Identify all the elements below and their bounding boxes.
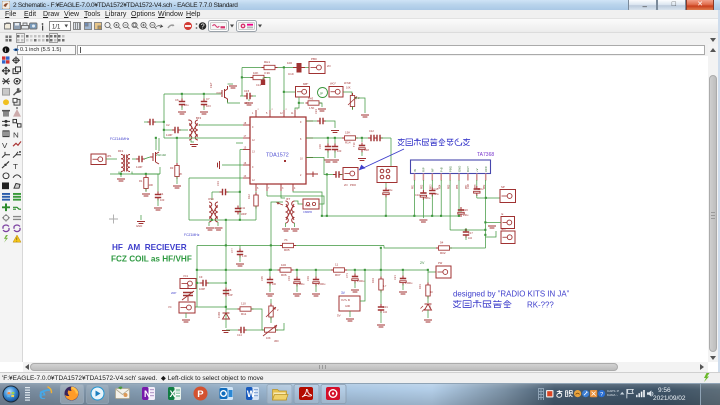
svg-text:C12: C12 <box>369 129 374 133</box>
wire JP1 to RF1 <box>106 158 117 160</box>
svg-text:7: 7 <box>268 187 270 190</box>
svg-text:1,000u: 1,000u <box>405 282 413 285</box>
svg-text:9: 9 <box>252 166 254 169</box>
wire VC2 row <box>195 306 226 308</box>
capacitor C11 100P <box>235 206 241 215</box>
flag <box>627 389 633 398</box>
svg-text:i: i <box>5 48 6 54</box>
connector E1 <box>501 217 515 229</box>
capacitor C20 240u <box>460 207 462 216</box>
svg-text:NF: NF <box>431 168 435 172</box>
svg-text:12: 12 <box>252 139 255 142</box>
T3 tuning arrow <box>277 203 284 206</box>
wire pin1 down to bus216 <box>414 180 416 216</box>
arrow to PE1 (blue) <box>359 149 404 170</box>
FET Q2 RF amp <box>222 86 228 102</box>
svg-text:OUT: OUT <box>466 166 470 172</box>
svg-text:2O: 2O <box>327 64 332 68</box>
svg-text:1,000u: 1,000u <box>357 280 365 283</box>
wire IC pin10 long <box>189 177 243 179</box>
Acrobat <box>299 387 313 400</box>
wire RF1 to C1 <box>132 158 137 160</box>
svg-text:10K: 10K <box>346 86 351 90</box>
svg-text:12: 12 <box>252 179 255 182</box>
wire IC bottom pin4 to audio bus <box>293 191 322 216</box>
canvas <box>23 56 708 362</box>
svg-text:C15: C15 <box>244 89 250 93</box>
wire after R14 <box>356 137 370 139</box>
grip <box>25 387 30 401</box>
svg-text:R06: R06 <box>281 273 287 277</box>
svg-text:IFT: IFT <box>286 197 290 201</box>
svg-text:735u: 735u <box>434 193 440 196</box>
resistor R06 100 <box>278 268 294 272</box>
svg-text:7K: 7K <box>284 238 288 242</box>
capacitor C1 110P <box>136 156 145 162</box>
wire 2V node <box>428 270 436 272</box>
svg-text:R11: R11 <box>241 312 247 316</box>
Outlook <box>220 387 234 400</box>
capacitor C4 103 <box>157 174 159 192</box>
svg-text:100u: 100u <box>478 188 484 191</box>
wire bottom osc bus y220 <box>189 219 256 221</box>
svg-text:C?1: C?1 <box>345 273 349 278</box>
svg-text:R3: R3 <box>170 166 174 170</box>
wire IC pin15 stub <box>236 142 243 144</box>
svg-text:2: 2 <box>300 174 302 177</box>
svg-text:T10: T10 <box>352 142 356 147</box>
wire IC pin12 to ground <box>222 164 243 166</box>
wire mid bus y245 <box>197 245 283 247</box>
player <box>91 387 105 401</box>
svg-text:1.0K: 1.0K <box>242 255 247 258</box>
svg-text:2021/09/02: 2021/09/02 <box>653 395 686 402</box>
svg-text:C4: C4 <box>160 192 164 196</box>
wire EO1 left <box>486 231 497 237</box>
svg-text:1N60: 1N60 <box>217 311 221 318</box>
grounds OSC1 <box>208 222 210 226</box>
svg-text:PB0: PB0 <box>311 57 317 61</box>
resistor RH3 1.5K <box>306 101 322 105</box>
running app frames <box>267 385 292 404</box>
trimmer resistor VR1 <box>270 299 272 306</box>
show desktop <box>700 384 701 405</box>
network <box>636 390 645 397</box>
wire gate bus y94 <box>164 93 221 95</box>
svg-text:10P: 10P <box>228 293 233 297</box>
svg-text:C04: C04 <box>287 276 291 281</box>
wire top supply bus <box>242 67 264 69</box>
svg-text:C9: C9 <box>199 275 203 279</box>
wire IC pin14 stub <box>240 149 243 151</box>
wire RF1 taps <box>118 172 120 175</box>
wire R11 right <box>251 309 262 330</box>
svg-text:PW: PW <box>438 261 443 265</box>
connector MB1 <box>296 87 310 98</box>
capacitor C12 <box>226 329 238 331</box>
ground RF1 <box>120 172 122 178</box>
svg-text:4: 4 <box>199 124 201 127</box>
svg-text:R12: R12 <box>247 194 251 199</box>
resistor R11 110 <box>238 307 254 311</box>
svg-text:100: 100 <box>272 283 277 286</box>
wire pin5 down <box>449 180 451 230</box>
diode D1 1N60 <box>223 313 230 319</box>
svg-text:FCZ1MHz: FCZ1MHz <box>184 233 200 237</box>
connector PB0 <box>309 62 325 74</box>
wire R15 to ground <box>355 98 366 113</box>
svg-text:C17: C17 <box>468 231 473 235</box>
wire main bus y138 to IC pin3 <box>164 137 243 139</box>
status bar <box>0 372 720 383</box>
wire FET source to C13 node <box>228 100 241 103</box>
wire VC1 to C9 <box>196 282 201 284</box>
wire MB1 to RH3 <box>295 97 299 110</box>
wire pin4 down <box>440 180 442 216</box>
svg-text:RIP: RIP <box>422 167 426 172</box>
Word <box>246 387 259 400</box>
wire IC pin1 right <box>306 120 318 122</box>
svg-text:GND: GND <box>136 224 142 228</box>
IC bottom pins <box>255 184 257 191</box>
svg-text:1K: 1K <box>430 291 433 294</box>
junction at supply rail <box>485 197 487 199</box>
regulator ground <box>349 311 351 317</box>
svg-text:BF3: BF3 <box>196 116 202 120</box>
svg-text:JP: JP <box>320 92 324 96</box>
svg-text:C08: C08 <box>466 184 470 189</box>
svg-text:C05: C05 <box>260 276 264 281</box>
wire C9 to main vertical <box>208 282 226 284</box>
svg-text:e: e <box>39 387 46 403</box>
svg-text:5V: 5V <box>337 314 341 318</box>
connector EO1 <box>501 231 515 244</box>
svg-text:R14: R14 <box>345 141 351 145</box>
svg-text:2O: 2O <box>344 183 349 187</box>
svg-text:CSB455: CSB455 <box>303 211 313 214</box>
svg-text:54: 54 <box>440 241 444 245</box>
IC U1 TDA1572 <box>250 117 306 184</box>
wire drop to audio bus <box>326 175 328 217</box>
start orb <box>3 386 20 403</box>
svg-text:C14: C14 <box>237 333 242 337</box>
toolbar row 1 <box>0 19 720 33</box>
IC top pins <box>255 110 257 117</box>
resistor RH1 3.3K <box>262 65 278 69</box>
svg-text:100u: 100u <box>299 283 305 286</box>
resistor R12 below IC <box>255 191 257 195</box>
stub R15 bottom <box>352 107 354 111</box>
wire T3 primary to low bus <box>271 202 283 270</box>
wire IC pin12 riser <box>283 68 285 111</box>
svg-text:104: 104 <box>468 237 473 240</box>
speaker <box>647 390 653 396</box>
svg-text:9: 9 <box>300 121 302 124</box>
svg-text:RK-???: RK-??? <box>527 301 554 310</box>
pseudo あ <box>557 390 563 397</box>
svg-text:3V: 3V <box>341 291 346 295</box>
svg-text:15K: 15K <box>345 131 350 135</box>
svg-text:20P: 20P <box>171 291 176 295</box>
svg-text:11: 11 <box>291 112 294 115</box>
svg-text:R02: R02 <box>440 251 446 255</box>
svg-text:VC: VC <box>168 305 172 309</box>
red app <box>326 387 340 400</box>
wire vertical x189 to osc bus <box>188 178 190 220</box>
wire left vertical x164 <box>163 94 165 138</box>
capacitor C04 100u <box>296 270 298 277</box>
svg-text:3.3K: 3.3K <box>264 71 270 75</box>
svg-text:C15: C15 <box>434 187 439 191</box>
capacitor C15b <box>431 180 433 188</box>
wire vertical x240 <box>239 150 241 221</box>
capacitor C24 <box>317 118 326 124</box>
svg-text:2: 2 <box>258 109 260 111</box>
capacitor C9 100P <box>200 280 209 286</box>
svg-text:110: 110 <box>241 302 246 306</box>
capacitor C2 input <box>147 119 156 125</box>
toolbar row 2 <box>0 33 720 44</box>
wire C1 to Q1 gate <box>144 157 150 159</box>
ceramic resonator X1 455kHz <box>303 199 319 209</box>
menu bar <box>0 10 720 19</box>
svg-text:22u: 22u <box>388 188 393 192</box>
svg-text:RH1: RH1 <box>264 60 270 64</box>
wire R16 to pin5 riser <box>264 78 270 111</box>
svg-text:2: 2 <box>277 308 279 312</box>
resistor R14 15K <box>342 136 358 140</box>
svg-text:C21: C21 <box>393 275 397 280</box>
capacitor C05 100 <box>269 270 271 277</box>
transistor Q1 2SK192 <box>150 152 159 164</box>
capacitor C14 electrolytic <box>262 78 264 80</box>
IC right pins <box>306 120 313 122</box>
wire bus y230 <box>450 229 485 231</box>
wire from bus to 10K divider <box>241 68 243 97</box>
svg-text:1.5K: 1.5K <box>309 106 315 110</box>
coordinate + command row <box>0 44 720 56</box>
svg-text:+V: +V <box>475 168 479 172</box>
svg-text:2V: 2V <box>420 261 425 265</box>
oscillator coil OSC1 <box>209 202 218 222</box>
svg-text:R04: R04 <box>371 278 375 283</box>
svg-text:N: N <box>13 131 19 140</box>
svg-text:RH3: RH3 <box>308 97 314 101</box>
taskbar <box>0 383 720 405</box>
label board number RK-??? (blue) <box>453 300 511 307</box>
transistor Q3 AGC <box>262 328 278 332</box>
svg-text:10K: 10K <box>266 336 271 340</box>
svg-text:GND: GND <box>345 306 350 308</box>
capacitor C19b pair <box>368 135 377 141</box>
wire Q1 drain <box>155 138 157 150</box>
svg-text:KANA :-: KANA :- <box>607 393 618 397</box>
svg-text:PrB: PrB <box>440 167 444 172</box>
connector PW1 power <box>436 266 451 278</box>
folder <box>273 390 289 401</box>
svg-text:LED: LED <box>429 305 432 310</box>
capacitor C01 104 <box>378 304 384 313</box>
svg-text:100: 100 <box>149 183 154 187</box>
svg-text:455E: 455E <box>305 205 311 208</box>
svg-text:R1: R1 <box>139 179 143 183</box>
svg-text:4: 4 <box>294 187 296 190</box>
svg-text:220u: 220u <box>425 196 431 200</box>
svg-text:?: ? <box>600 392 603 398</box>
svg-text:10u: 10u <box>184 103 189 107</box>
capacitor C18 10u <box>361 138 363 142</box>
svg-text:2K: 2K <box>179 172 182 176</box>
wire T2 to IC pin1 <box>199 124 244 126</box>
svg-text:C13: C13 <box>216 181 220 186</box>
wire resonator leads <box>267 196 324 204</box>
capacitor C16 103 <box>327 138 329 144</box>
wire IC right pin3 bus y138 <box>306 137 344 139</box>
IC left pins <box>243 124 250 126</box>
wire bus jog to y248 <box>384 246 438 249</box>
svg-text:MB*: MB* <box>303 82 309 86</box>
svg-text:10K: 10K <box>253 71 258 75</box>
svg-text:9: 9 <box>252 126 254 129</box>
svg-text:5: 5 <box>266 112 268 115</box>
svg-text:C77: C77 <box>230 248 234 253</box>
wire C13 left down to OSC <box>211 192 213 200</box>
svg-text:C18: C18 <box>364 148 369 152</box>
pin2 no-connect mark <box>307 172 318 178</box>
wire regulator in <box>360 270 365 301</box>
svg-text:C7: C7 <box>206 97 210 101</box>
svg-text:PRO: PRO <box>350 183 357 187</box>
ground T2 secondary <box>191 140 194 142</box>
svg-text:HF AM RECIEVER: HF AM RECIEVER <box>112 243 187 252</box>
wire MB1 left <box>284 91 296 93</box>
svg-text:C2: C2 <box>166 123 170 127</box>
svg-text:OSC: OSC <box>208 197 214 201</box>
connector PE1 <box>343 168 358 180</box>
transformer RF1 FCZ coil <box>121 155 130 172</box>
grounds T3 <box>285 223 287 227</box>
svg-text:VCC: VCC <box>484 166 488 172</box>
svg-text:100: 100 <box>281 263 286 267</box>
svg-text:C10: C10 <box>415 193 420 197</box>
wire bus y248 right <box>450 247 486 249</box>
transformer T2 BF5 <box>189 120 198 140</box>
wire bus y216 <box>322 215 460 217</box>
svg-text:WO*: WO* <box>330 82 337 86</box>
svg-text:9:56: 9:56 <box>658 387 671 394</box>
svg-text:JP1: JP1 <box>107 154 112 158</box>
svg-text:C16: C16 <box>318 144 322 149</box>
svg-text:C01: C01 <box>383 305 388 309</box>
svg-text:JR0: JR0 <box>274 339 279 343</box>
trimmer capacitor CT1 20P <box>182 284 194 301</box>
wire T3 right to resonator <box>295 201 304 204</box>
capacitor C17 104 <box>465 228 467 230</box>
svg-text:1,000u: 1,000u <box>318 283 326 286</box>
svg-text:C03: C03 <box>306 276 310 281</box>
connector PROD 4pin <box>377 167 397 183</box>
connector PB1 <box>329 87 343 98</box>
Excel <box>168 387 181 400</box>
pseudo 般 <box>565 390 572 396</box>
tray grip <box>538 388 544 400</box>
tuning connector VC1 <box>180 279 196 289</box>
wire low bus y270 <box>197 269 280 271</box>
schematic SVG placeholder <box>23 56 708 362</box>
svg-text:C8: C8 <box>228 288 232 292</box>
svg-text:PBG: PBG <box>448 166 452 172</box>
svg-text:2: 2 <box>286 109 288 111</box>
svg-text:6: 6 <box>257 187 259 190</box>
wire pin9 down to supply bus <box>485 180 487 248</box>
svg-text:1: 1 <box>252 112 254 115</box>
wire pin8 to SP <box>477 197 500 199</box>
svg-text:100: 100 <box>287 61 292 65</box>
capacitor C6 10u <box>181 94 183 99</box>
ground E1 <box>486 222 501 224</box>
wire Q1 collector to bus <box>158 138 160 151</box>
capacitor C15 104 <box>240 95 245 97</box>
capacitor C22 <box>334 138 336 144</box>
svg-text:IN: IN <box>413 169 417 172</box>
resistor R05 7K <box>280 243 296 247</box>
svg-text:?: ? <box>201 24 205 31</box>
svg-text:FET: FET <box>209 82 213 88</box>
svg-text:V: V <box>2 141 8 150</box>
capacitor C03 1000u <box>315 270 317 277</box>
wire RH3 right to ground <box>319 103 322 107</box>
capacitor C8 10P <box>223 288 229 297</box>
tray icons <box>546 390 554 398</box>
scrollbars <box>708 44 718 362</box>
svg-text:13: 13 <box>252 151 255 154</box>
svg-text:C14: C14 <box>256 83 261 87</box>
svg-text:8: 8 <box>300 138 302 141</box>
wire main vertical x226 <box>225 220 227 328</box>
wire source bus y174 <box>110 173 160 175</box>
svg-text:P: P <box>197 389 204 400</box>
wire PB1 to R15 <box>343 92 352 96</box>
svg-text:100P: 100P <box>199 287 205 291</box>
capacitor C13 <box>212 191 221 193</box>
svg-text:N: N <box>144 389 151 399</box>
wire IC pin10 to PE1 <box>306 158 334 175</box>
svg-text:X: X <box>170 389 176 399</box>
svg-text:FCZ COIL as HF/VHF: FCZ COIL as HF/VHF <box>111 255 192 264</box>
label product-detector board (blue) <box>398 138 470 145</box>
svg-text:100P: 100P <box>241 212 247 216</box>
svg-text:FCZ144MHz: FCZ144MHz <box>110 137 130 141</box>
ground at FET drain <box>228 83 234 85</box>
wire pin6 down <box>458 180 460 216</box>
wire down to PROD <box>390 138 392 166</box>
antenna connector JP1 <box>91 154 106 165</box>
svg-text:3: 3 <box>282 187 284 190</box>
svg-text:C20: C20 <box>463 208 468 212</box>
resistor R07 11 <box>331 268 347 272</box>
svg-text:TA7368: TA7368 <box>477 152 494 158</box>
svg-text:E: E <box>502 212 504 216</box>
resistor R3 <box>176 138 178 166</box>
resistor R04 <box>380 248 382 279</box>
supply symbol GND label <box>140 215 142 220</box>
trimmer resistor R15 <box>350 93 354 109</box>
Firefox <box>65 387 79 401</box>
capacitor C77 <box>239 246 241 250</box>
capacitor C26 coupling <box>333 171 342 177</box>
capacitor C23 22u <box>385 183 387 188</box>
svg-text:C24: C24 <box>314 109 318 114</box>
